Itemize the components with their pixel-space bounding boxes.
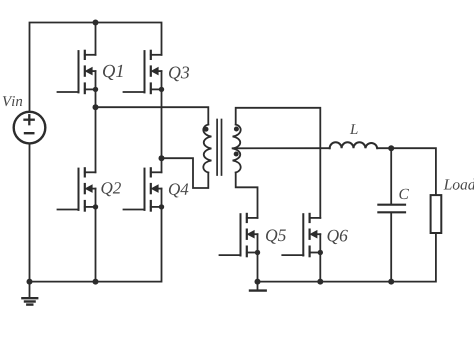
transformer core xyxy=(217,120,221,176)
wire inductor to load top xyxy=(377,148,436,195)
wire Q2 source down xyxy=(95,207,97,282)
node Q2 source on rail xyxy=(93,279,99,285)
ground (primary side) xyxy=(22,282,37,305)
label L xyxy=(350,124,358,134)
wire secondary bottom to Q5 drain xyxy=(236,173,258,218)
wire secondary center tap to inductor xyxy=(233,147,330,149)
node top rail junction xyxy=(93,20,99,26)
wire Q1 drain xyxy=(95,23,97,55)
label Q4 xyxy=(169,183,189,197)
transistor Q3 xyxy=(124,51,165,93)
wire Q1 source to Q2 drain xyxy=(95,89,97,172)
resistor Load xyxy=(431,195,442,233)
wire Vin- down to bottom rail xyxy=(30,144,162,281)
wire right midpoint to primary bottom xyxy=(162,158,209,188)
transformer T1 primary winding xyxy=(203,125,211,173)
wire capacitor bottom lead xyxy=(390,213,392,282)
transformer secondary polarity dot upper xyxy=(234,127,239,132)
node ground junction xyxy=(27,279,33,285)
node capacitor on rail xyxy=(388,279,394,285)
label Q2 xyxy=(101,182,121,196)
wire Q6 source down xyxy=(319,253,321,282)
wire Q3 source to Q4 drain xyxy=(161,89,163,172)
transformer secondary polarity dot lower xyxy=(234,152,239,157)
node Q6 source on rail xyxy=(317,279,323,285)
wire top rail from Vin+ to Q3 drain xyxy=(30,23,162,111)
node right leg midpoint xyxy=(159,155,165,161)
node left leg midpoint xyxy=(93,104,99,110)
label Q3 xyxy=(169,67,189,82)
transistor Q2 xyxy=(58,168,99,210)
label Vin xyxy=(3,96,22,106)
wire secondary top to Q6 drain xyxy=(236,108,321,218)
wire left midpoint to primary top xyxy=(96,107,209,124)
transformer primary polarity dot xyxy=(204,127,209,132)
ground (secondary side) xyxy=(250,282,266,291)
label Q5 xyxy=(266,229,286,243)
wire Q5 source down xyxy=(257,253,259,282)
transistor Q5 xyxy=(220,214,261,256)
transistor Q1 xyxy=(58,51,99,93)
transistor Q4 xyxy=(124,168,165,210)
label Load xyxy=(444,179,474,190)
transistor Q6 xyxy=(282,214,323,256)
wire bottom rail secondary side xyxy=(258,233,436,282)
node Q5 source ground junction xyxy=(255,279,261,285)
capacitor C xyxy=(378,205,405,213)
node LC junction xyxy=(388,145,394,151)
label Q6 xyxy=(328,230,348,244)
label C xyxy=(399,189,409,199)
wire capacitor top lead xyxy=(390,148,392,204)
label Q1 xyxy=(103,65,123,80)
transformer secondary winding xyxy=(233,125,241,173)
voltage source Vin xyxy=(14,112,46,144)
inductor L xyxy=(330,142,378,148)
